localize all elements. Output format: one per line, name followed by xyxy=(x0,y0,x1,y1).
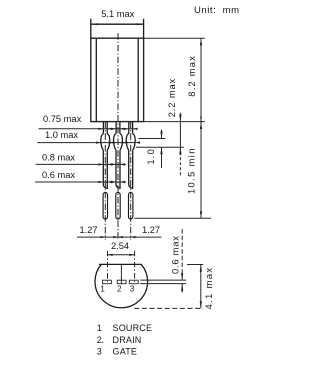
body bottom extension line xyxy=(144,121,205,123)
svg-text:10.5 min: 10.5 min xyxy=(187,147,197,194)
package body inner edge lines xyxy=(96,39,138,122)
package centerline xyxy=(117,33,119,239)
svg-text:0.6 max: 0.6 max xyxy=(171,235,181,274)
lead 1 upper shank xyxy=(103,150,107,188)
svg-text:0.8 max: 0.8 max xyxy=(42,152,75,162)
lead 1 lower segment xyxy=(103,193,107,220)
dimension 2.2 max line xyxy=(179,113,181,147)
dimension 2.54 extension lines xyxy=(108,251,135,284)
svg-text:3: 3 xyxy=(97,347,102,357)
pin 2 leader line xyxy=(120,265,122,284)
svg-text:GATE: GATE xyxy=(113,347,138,357)
lead 2 neck xyxy=(116,122,120,134)
pad extension lines xyxy=(140,280,186,284)
lead 1 centerline xyxy=(104,122,106,240)
lead 2 upper shank xyxy=(116,150,120,188)
svg-text:3: 3 xyxy=(130,284,135,293)
lead 3 neck xyxy=(129,122,133,134)
svg-text:1: 1 xyxy=(100,284,105,293)
dimension 1.27 line xyxy=(77,236,162,238)
bottom view body circle xyxy=(95,264,148,307)
dimension 2.54 line xyxy=(108,254,135,256)
svg-text:5.1 max: 5.1 max xyxy=(101,9,134,19)
lead 3 lower segment xyxy=(129,193,133,220)
lead 3 centerline xyxy=(130,122,132,240)
lead 3 upper shank xyxy=(129,150,133,188)
svg-text:0.75 max: 0.75 max xyxy=(43,114,82,124)
svg-text:Unit: mm: Unit: mm xyxy=(194,5,240,16)
bulge top extension line xyxy=(138,138,165,140)
svg-text:0.6 max: 0.6 max xyxy=(42,170,75,180)
svg-text:1: 1 xyxy=(97,323,102,333)
lead tip extension line xyxy=(134,217,211,219)
dimension 0.6 max leader line xyxy=(35,181,126,183)
dimension 5.1 max line xyxy=(91,23,144,25)
svg-text:2.2 max: 2.2 max xyxy=(167,78,177,117)
bulge bottom extension line xyxy=(136,146,184,148)
svg-text:1.0 max: 1.0 max xyxy=(45,130,78,140)
legend pin 2 xyxy=(102,342,103,343)
dimension 4.1 max line xyxy=(200,265,202,309)
lead 3 bulge xyxy=(126,134,135,151)
dimension 0.6 max line xyxy=(181,229,183,274)
pin 3 pad xyxy=(129,280,138,284)
svg-text:SOURCE: SOURCE xyxy=(113,323,153,333)
pin 2 pad xyxy=(117,280,126,284)
dimension 5.1 max extension lines xyxy=(91,19,144,38)
dimension 0.8 max leader line xyxy=(36,163,126,165)
dimension 1.0 max leader line xyxy=(37,142,135,144)
svg-text:1.27: 1.27 xyxy=(80,225,98,235)
lead 1 neck xyxy=(103,122,107,134)
circle bottom extension line xyxy=(134,307,203,309)
body top extension line xyxy=(144,37,205,39)
dimension 1.0 line xyxy=(161,130,163,169)
bottom view flat edge xyxy=(99,263,142,265)
pin 1 pad xyxy=(103,280,112,284)
package body outline xyxy=(91,38,144,121)
svg-text:4.1 max: 4.1 max xyxy=(204,267,214,310)
svg-text:1.27: 1.27 xyxy=(142,225,160,235)
svg-text:2.54: 2.54 xyxy=(111,241,129,251)
svg-text:2: 2 xyxy=(117,284,122,293)
svg-text:8.2 max: 8.2 max xyxy=(187,55,197,97)
lead 2 lower segment xyxy=(116,193,120,220)
svg-text:2: 2 xyxy=(97,335,102,345)
svg-text:1.0: 1.0 xyxy=(146,148,156,165)
svg-text:DRAIN: DRAIN xyxy=(113,335,142,345)
flat edge extension line xyxy=(187,264,203,266)
dimension 0.75 max leader line xyxy=(39,128,135,130)
lead 1 bulge xyxy=(101,134,110,151)
lead 2 bulge xyxy=(114,134,123,151)
dimension 8.2/10.5 line xyxy=(200,38,202,218)
